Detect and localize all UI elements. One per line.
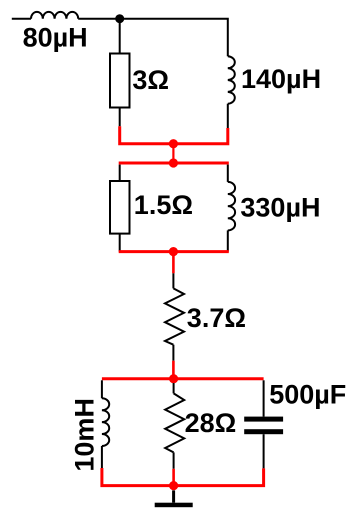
inductor L3 330uH (228, 182, 235, 230)
resistor R2 1.5ohm box (110, 181, 130, 234)
wire L4 bottom lead (101, 446, 103, 468)
resistor R4 28ohm zigzag (165, 393, 184, 452)
node red dot block3 bottom (169, 481, 178, 490)
wire lead to R2 (119, 165, 121, 181)
wire red bottom of block2 (119, 250, 229, 253)
svg-text:3.7Ω: 3.7Ω (187, 303, 246, 333)
svg-text:330µH: 330µH (240, 193, 320, 223)
wire black lead to R3 (172, 273, 174, 288)
wire R1 bottom lead (119, 108, 121, 127)
wire top left (12, 18, 31, 20)
wire red down from block2 (172, 252, 175, 274)
wire junction down to R1 (119, 19, 121, 54)
wire L3 bottom lead (227, 230, 229, 251)
wire C1 bottom lead (263, 434, 265, 468)
wire red bottom of block3 (102, 468, 264, 486)
wire black lead below R3 (172, 345, 174, 361)
node red dot block2 top (169, 158, 178, 167)
wire red top of block3 (102, 377, 264, 380)
node red dot block3 top (169, 374, 178, 383)
wire lead below dot to R4 (173, 383, 175, 393)
wire red bottom of block1 (120, 126, 228, 143)
wire black below R4 (173, 452, 175, 468)
node junction top (115, 14, 124, 23)
wire lead to C1 (263, 380, 265, 416)
wire red top of block2 (119, 162, 229, 165)
svg-text:28Ω: 28Ω (185, 408, 237, 438)
resistor R1 3ohm box (110, 54, 130, 108)
inductor L4 10mH (102, 398, 109, 446)
wire red into block3 top (172, 361, 175, 379)
wire lead to L3 (227, 165, 229, 182)
wire red below R4 to bottom (172, 469, 175, 486)
resistor R3 3.7ohm zigzag (165, 288, 184, 344)
svg-text:3Ω: 3Ω (132, 65, 169, 95)
svg-text:500µF: 500µF (269, 380, 346, 410)
svg-text:1.5Ω: 1.5Ω (134, 190, 193, 220)
inductor L1 80uH (31, 12, 78, 19)
inductor L2 140uH (228, 56, 235, 103)
wire top to right corner (78, 19, 228, 57)
wire lead to L4 (101, 380, 103, 398)
ground stem (172, 490, 175, 502)
ground bar (155, 503, 193, 508)
svg-text:10mH: 10mH (70, 398, 100, 472)
wire R2 bottom lead (119, 234, 121, 252)
svg-text:140µH: 140µH (241, 64, 321, 94)
node red dot block2 bottom (169, 247, 178, 256)
wire L2 bottom lead (227, 104, 229, 128)
svg-text:80µH: 80µH (23, 23, 88, 53)
node red dot block1 bottom (169, 139, 178, 148)
capacitor C1 plate bottom (244, 429, 283, 434)
wire red connector between blocks (172, 144, 174, 163)
capacitor C1 plate top (244, 417, 283, 422)
